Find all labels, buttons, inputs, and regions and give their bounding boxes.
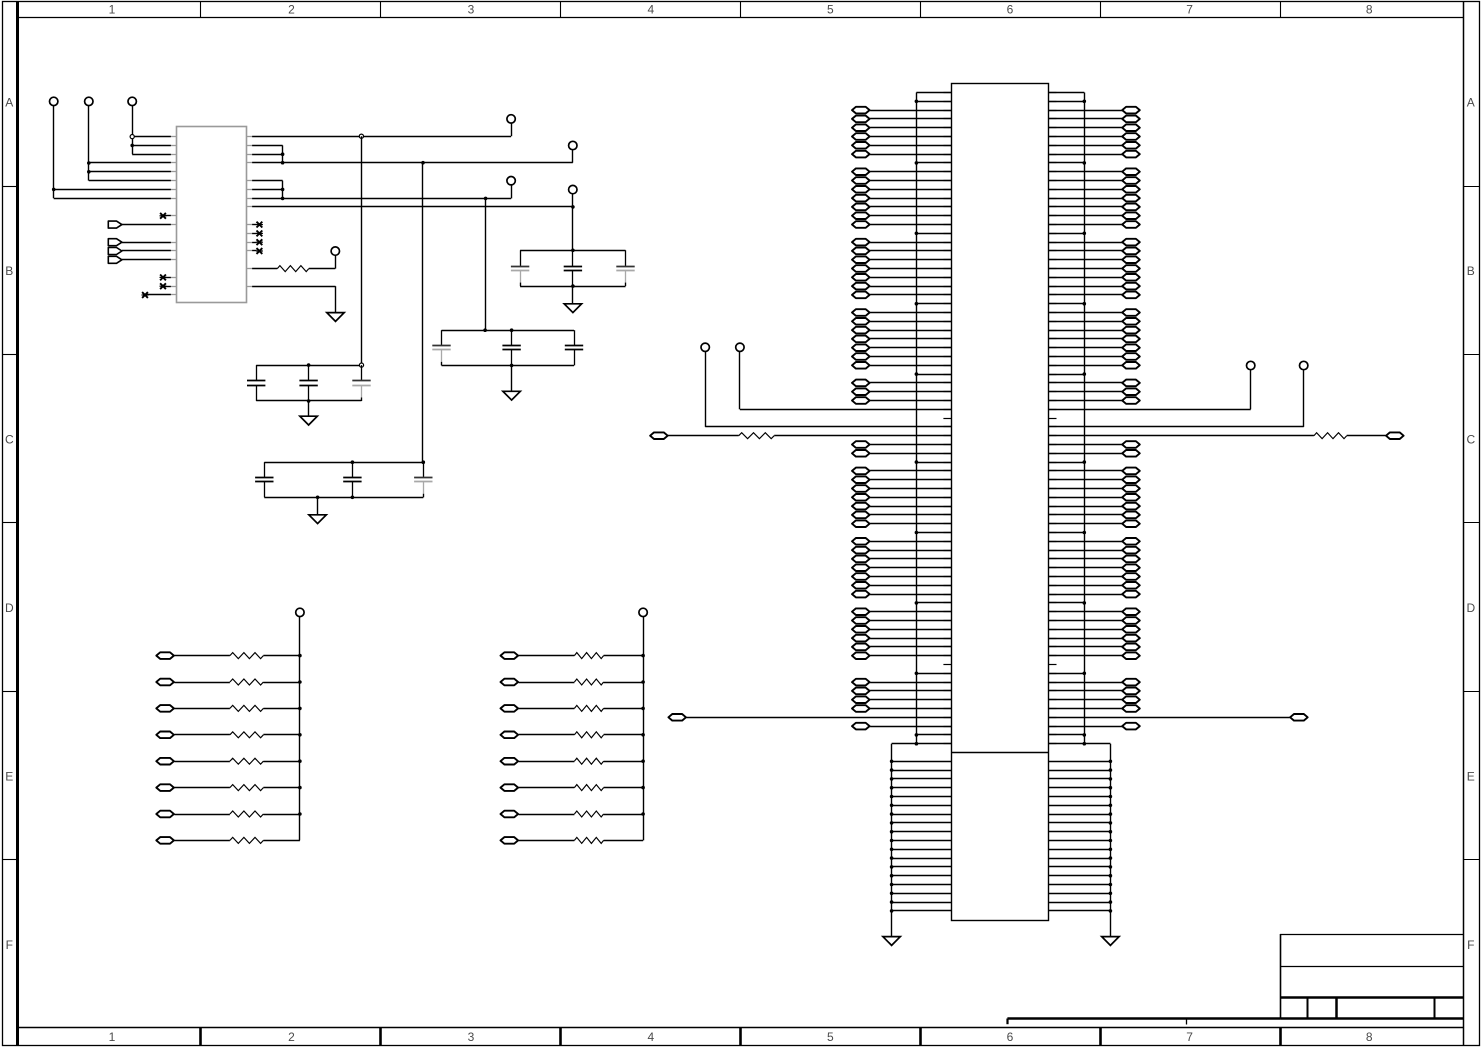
J1 GND pin row 88 left <box>890 865 952 869</box>
J1 GND pin row 76 right <box>1049 760 1113 764</box>
svg-text:4: 4 <box>647 1030 654 1044</box>
J1 GND pin row 87 right <box>1049 856 1113 860</box>
wire U1 pin k8 to TPD (node n4) <box>252 194 575 209</box>
svg-text:1: 1 <box>109 3 116 17</box>
wire U1 pin k0 to TPA (node n1) <box>252 123 511 138</box>
J1 GND pin row 77 right <box>1049 768 1113 772</box>
test point TPE <box>331 247 339 255</box>
J1 signal pin row 64 left: wire and net oval <box>852 652 951 659</box>
J1 signal pin row 70 left: wire and net oval <box>852 705 951 712</box>
resistor R6 with net oval <box>156 705 301 712</box>
wire TPF to J1 left row 36 <box>740 352 952 410</box>
J1 signal pin row 18 left: wire and net oval <box>852 248 951 255</box>
resistor R17 with net oval <box>501 784 645 791</box>
J1 signal pin row 25 left: wire and net oval <box>852 309 951 316</box>
J1 signal pin row 61 right: wire and net oval <box>1049 626 1140 633</box>
J1 signal pin row 45 left: wire and net oval <box>852 485 951 492</box>
J1 signal pin row 31 right: wire and net oval <box>1049 362 1140 369</box>
J1 GND pin row 89 right <box>1049 874 1113 878</box>
J1 GND bus pin row 1 <box>915 100 1086 104</box>
J1 signal pin row 40 left: wire and net oval <box>852 441 951 448</box>
IC U1 pin stubs <box>171 137 252 295</box>
J1 signal pin row 53 left: wire and net oval <box>852 556 951 563</box>
svg-text:D: D <box>1466 601 1475 615</box>
ground under cap bank C <box>300 416 317 425</box>
J1 signal pin row 5 left: wire and net oval <box>852 133 951 140</box>
wire J1 row 74 to lower left bus <box>892 742 952 746</box>
resistor R5 with net oval <box>156 679 301 686</box>
J1 signal pin row 35 left: wire and net oval <box>852 397 951 404</box>
J1 GND pin row 87 left <box>890 856 952 860</box>
capacitor C2 <box>564 250 582 286</box>
IC U1 <box>177 127 247 303</box>
J1 signal pin row 17 right: wire and net oval <box>1049 239 1140 246</box>
svg-text:1: 1 <box>109 1030 116 1044</box>
J1 GND bus pin row 66 <box>915 672 1086 676</box>
J1 signal pin row 52 left: wire and net oval <box>852 547 951 554</box>
J1 GND bus pin row 42 <box>915 460 1086 464</box>
test point TPK pull rail <box>639 608 647 616</box>
J1 signal pin row 31 left: wire and net oval <box>852 362 951 369</box>
J1 GND pin row 81 right <box>1049 804 1113 808</box>
no-connect U1 right pin 13 <box>252 248 263 254</box>
J1 GND pin row 77 left <box>890 768 952 772</box>
test point TPF <box>736 343 744 351</box>
test point TPG <box>701 343 709 351</box>
svg-text:3: 3 <box>468 3 475 17</box>
J1 signal pin row 57 left: wire and net oval <box>852 591 951 598</box>
wire cap bank C bottom rail <box>256 399 361 416</box>
J1 signal pin row 54 left: wire and net oval <box>852 564 951 571</box>
J1 signal pin row 49 left: wire and net oval <box>852 520 951 527</box>
svg-text:B: B <box>5 264 13 278</box>
J1 signal pin row 33 left: wire and net oval <box>852 380 951 387</box>
J1 signal pin row 46 left: wire and net oval <box>852 494 951 501</box>
no-connect U1 right pin 12 <box>252 239 263 245</box>
J1 signal pin row 68 right: wire and net oval <box>1049 688 1140 695</box>
no-connect U1 left pin 16 <box>160 275 171 281</box>
J1 signal pin row 61 left: wire and net oval <box>852 626 951 633</box>
J1 signal pin row 4 left: wire and net oval <box>852 124 951 131</box>
J1 signal pin row 34 left: wire and net oval <box>852 388 951 395</box>
J1 GND pin row 78 right <box>1049 777 1113 781</box>
svg-text:2: 2 <box>288 1030 295 1044</box>
title block <box>1007 934 1463 1025</box>
J1 signal pin row 55 left: wire and net oval <box>852 573 951 580</box>
TPK rail wire <box>643 617 645 841</box>
J1 signal pin row 27 right: wire and net oval <box>1049 327 1140 334</box>
wire TPI to J1 right row 38 <box>1049 370 1304 427</box>
J1 GND pin row 83 right <box>1049 821 1113 825</box>
J1 signal pin row 7 right: wire and net oval <box>1049 151 1140 158</box>
resistor R11 with net oval <box>156 837 300 844</box>
wire TPH to J1 right row 36 <box>1049 370 1251 410</box>
svg-text:F: F <box>6 938 13 952</box>
TPJ rail wire <box>299 617 301 841</box>
svg-text:A: A <box>5 96 13 110</box>
J1 GND bus pin row 50 <box>915 531 1086 535</box>
J1 GND pin row 91 right <box>1049 892 1113 896</box>
wire cap bank C top rail <box>256 363 363 367</box>
J1 GND pin row 79 right <box>1049 786 1113 790</box>
no-connect U1 left pin 17 <box>160 283 171 289</box>
J1 signal pin row 3 left: wire and net oval <box>852 116 951 123</box>
resistor R18 with net oval <box>501 811 645 818</box>
J1 signal pin row 13 left: wire and net oval <box>852 204 951 211</box>
J1 signal pin row 44 right: wire and net oval <box>1049 476 1140 483</box>
J1 signal pin row 12 right: wire and net oval <box>1049 195 1140 202</box>
resistor R19 with net oval <box>501 837 644 844</box>
svg-text:E: E <box>5 769 13 783</box>
J1 GND pin row 93 left <box>890 909 952 913</box>
J1 signal pin row 19 right: wire and net oval <box>1049 256 1140 263</box>
wire cap bank A top rail <box>520 249 625 253</box>
wire vertical node n1 to cap bank C <box>361 136 363 365</box>
capacitor C6 <box>565 330 583 365</box>
wire J1 left row 71 with net oval <box>668 714 951 721</box>
wire U1 pin k3 to TPB (node n2) <box>252 150 573 165</box>
J1 right GND bus <box>1049 93 1085 744</box>
J1 signal pin row 21 right: wire and net oval <box>1049 274 1140 281</box>
capacitor C12 <box>414 462 432 497</box>
J1 signal pin row 23 left: wire and net oval <box>852 292 951 299</box>
wire U1 pins k1-k3 tie <box>252 145 284 164</box>
J1 signal pin row 46 right: wire and net oval <box>1049 494 1140 501</box>
test point TPJ pull rail <box>296 608 304 616</box>
test point TPI <box>1300 361 1308 369</box>
J1 signal pin row 14 right: wire and net oval <box>1049 212 1140 219</box>
test point TPA <box>507 115 515 123</box>
J1 signal pin row 10 right: wire and net oval <box>1049 177 1140 184</box>
J1 signal pin row 23 right: wire and net oval <box>1049 292 1140 299</box>
J1 signal pin row 43 left: wire and net oval <box>852 468 951 475</box>
capacitor C3 <box>616 250 634 286</box>
wire U1 pin k17 to ground <box>252 286 335 312</box>
J1 lower left GND bus <box>891 744 893 937</box>
wire TPG to J1 left row 38 <box>705 352 951 427</box>
J1 signal pin row 54 right: wire and net oval <box>1049 564 1140 571</box>
wire cap bank A bottom rail <box>520 284 625 303</box>
J1 GND bus pin row 73 <box>915 733 1086 737</box>
J1 signal pin row 6 right: wire and net oval <box>1049 142 1140 149</box>
wire cap bank B top rail <box>442 328 575 332</box>
J1 signal pin row 26 right: wire and net oval <box>1049 318 1140 325</box>
J1 signal pin row 14 left: wire and net oval <box>852 212 951 219</box>
J1 signal pin row 43 right: wire and net oval <box>1049 468 1140 475</box>
resistor R3 with net oval, J1 right row 39 <box>1049 432 1404 439</box>
svg-text:7: 7 <box>1186 1030 1193 1044</box>
J1 GND pin row 90 left <box>890 883 952 887</box>
J1 signal pin row 53 right: wire and net oval <box>1049 556 1140 563</box>
ground under cap bank A <box>564 304 581 313</box>
J1 signal pin row 34 right: wire and net oval <box>1049 388 1140 395</box>
test point TPH <box>1247 361 1255 369</box>
J1 signal pin row 69 left: wire and net oval <box>852 696 951 703</box>
resistor R1 <box>252 266 335 272</box>
J1 signal pin row 17 left: wire and net oval <box>852 239 951 246</box>
J1 signal pin row 55 right: wire and net oval <box>1049 573 1140 580</box>
J1 GND bus pin row 8 <box>915 161 1086 165</box>
resistor R16 with net oval <box>501 758 645 765</box>
wire U1 pin k7 to TPC (node n3) <box>252 185 511 200</box>
J1 GND pin row 93 right <box>1049 909 1113 913</box>
input port flag U1 pin 13 <box>108 248 171 255</box>
J1 GND pin row 86 right <box>1049 848 1113 852</box>
svg-text:6: 6 <box>1007 1030 1014 1044</box>
J1 signal pin row 67 right: wire and net oval <box>1049 679 1140 686</box>
J1 signal pin row 48 left: wire and net oval <box>852 512 951 519</box>
J1 signal pin row 22 left: wire and net oval <box>852 283 951 290</box>
J1 signal pin row 72 left: wire and net oval <box>852 723 951 730</box>
J1 signal pin row 62 left: wire and net oval <box>852 635 951 642</box>
capacitor C8 <box>299 365 317 401</box>
test point TP1 <box>50 97 58 105</box>
J1 signal pin row 33 right: wire and net oval <box>1049 380 1140 387</box>
J1 signal pin row 11 right: wire and net oval <box>1049 186 1140 193</box>
test point TPC <box>507 177 515 185</box>
J1 GND pin row 81 left <box>890 804 952 808</box>
J1 signal pin row 60 left: wire and net oval <box>852 617 951 624</box>
J1 signal pin row 2 left: wire and net oval <box>852 107 951 114</box>
J1 GND pin row 91 left <box>890 892 952 896</box>
J1 signal pin row 19 left: wire and net oval <box>852 256 951 263</box>
J1 signal pin row 49 right: wire and net oval <box>1049 520 1140 527</box>
resistor R2 with net oval, J1 left row 39 <box>650 432 951 439</box>
J1 signal pin row 30 right: wire and net oval <box>1049 353 1140 360</box>
J1 signal pin row 47 right: wire and net oval <box>1049 503 1140 510</box>
J1 signal pin row 68 left: wire and net oval <box>852 688 951 695</box>
ground under cap bank B <box>503 391 520 400</box>
ground under cap bank D <box>309 515 326 524</box>
J1 signal pin row 22 right: wire and net oval <box>1049 283 1140 290</box>
J1 signal pin row 70 right: wire and net oval <box>1049 705 1140 712</box>
J1 signal pin row 56 right: wire and net oval <box>1049 582 1140 589</box>
J1 signal pin row 6 left: wire and net oval <box>852 142 951 149</box>
J1 signal pin row 21 left: wire and net oval <box>852 274 951 281</box>
J1 GND pin row 92 left <box>890 900 952 904</box>
J1 GND pin row 85 left <box>890 839 952 843</box>
J1 signal pin row 62 right: wire and net oval <box>1049 635 1140 642</box>
svg-text:C: C <box>5 433 14 447</box>
J1 GND pin row 82 left <box>890 812 952 816</box>
J1 GND pin row 90 right <box>1049 883 1113 887</box>
svg-text:8: 8 <box>1366 1030 1373 1044</box>
wire cap bank D top rail <box>264 460 425 464</box>
J1 GND pin row 82 right <box>1049 812 1113 816</box>
J1 signal pin row 69 right: wire and net oval <box>1049 696 1140 703</box>
J1 signal pin row 64 right: wire and net oval <box>1049 652 1140 659</box>
J1 signal pin row 35 right: wire and net oval <box>1049 397 1140 404</box>
J1 signal pin row 9 right: wire and net oval <box>1049 168 1140 175</box>
J1 GND pin row 83 left <box>890 821 952 825</box>
svg-text:A: A <box>1467 96 1475 110</box>
J1 GND pin row 92 right <box>1049 900 1113 904</box>
J1 GND pin row 85 right <box>1049 839 1113 843</box>
J1 signal pin row 63 right: wire and net oval <box>1049 644 1140 651</box>
resistor R10 with net oval <box>156 811 301 818</box>
J1 GND bus pin row 24 <box>915 302 1086 306</box>
J1 signal pin row 20 left: wire and net oval <box>852 265 951 272</box>
J1 GND bus pin row 32 <box>915 372 1086 376</box>
svg-text:4: 4 <box>647 3 654 17</box>
J1 signal pin row 15 left: wire and net oval <box>852 221 951 228</box>
test point TP2 <box>85 97 93 105</box>
J1 signal pin row 3 right: wire and net oval <box>1049 116 1140 123</box>
svg-text:C: C <box>1466 433 1475 447</box>
J1 GND pin row 89 left <box>890 874 952 878</box>
J1 signal pin row 2 right: wire and net oval <box>1049 107 1140 114</box>
svg-text:D: D <box>5 601 14 615</box>
wire TP2 net to U1 pins 4-6 <box>87 106 171 181</box>
wire TP1 net to U1 pins 7-8 <box>52 106 171 199</box>
wire U1 pins k5-k7 tie <box>252 181 284 201</box>
svg-text:5: 5 <box>827 1030 834 1044</box>
J1 signal pin row 12 left: wire and net oval <box>852 195 951 202</box>
svg-text:B: B <box>1467 264 1475 278</box>
J1 signal pin row 28 right: wire and net oval <box>1049 336 1140 343</box>
wire vertical node n3 to cap bank B <box>485 198 487 330</box>
J1 signal pin row 5 right: wire and net oval <box>1049 133 1140 140</box>
J1 signal pin row 4 right: wire and net oval <box>1049 124 1140 131</box>
J1 GND bus pin row 58 <box>915 601 1086 605</box>
J1 signal pin row 11 left: wire and net oval <box>852 186 951 193</box>
no-connect U1 right pin 11 <box>252 231 263 237</box>
J1 signal pin row 57 right: wire and net oval <box>1049 591 1140 598</box>
J1 signal pin row 40 right: wire and net oval <box>1049 441 1140 448</box>
wire J1 right row 71 with net oval <box>1049 714 1308 721</box>
wire R1 to TPE <box>335 255 337 268</box>
J1 signal pin row 15 right: wire and net oval <box>1049 221 1140 228</box>
no-connect U1 left pin 9 <box>160 213 171 219</box>
svg-text:F: F <box>1467 938 1474 952</box>
J1 signal pin row 10 left: wire and net oval <box>852 177 951 184</box>
resistor R7 with net oval <box>156 732 301 739</box>
resistor R9 with net oval <box>156 784 301 791</box>
capacitor C11 <box>343 462 361 497</box>
test point TPD <box>569 185 577 193</box>
resistor R13 with net oval <box>501 679 645 686</box>
svg-text:8: 8 <box>1366 3 1373 17</box>
J1 GND bus pin row 16 <box>915 232 1086 236</box>
svg-text:5: 5 <box>827 3 834 17</box>
ground under J1 left bus <box>883 937 900 946</box>
J1 signal pin row 9 left: wire and net oval <box>852 168 951 175</box>
ground under U1 <box>327 313 344 322</box>
J1 left GND bus <box>916 93 951 744</box>
no-connect U1 right pin 10 <box>252 222 263 228</box>
resistor R15 with net oval <box>501 732 645 739</box>
test point TPB <box>569 141 577 149</box>
J1 lower right GND bus <box>1110 744 1112 937</box>
J1 signal pin row 51 right: wire and net oval <box>1049 538 1140 545</box>
J1 GND pin row 80 left <box>890 795 952 799</box>
wire vertical node n2 to cap bank D <box>422 163 424 463</box>
J1 signal pin row 59 right: wire and net oval <box>1049 608 1140 615</box>
J1 signal pin row 26 left: wire and net oval <box>852 318 951 325</box>
resistor R14 with net oval <box>501 705 645 712</box>
capacitor C4 <box>432 330 450 365</box>
J1 signal pin row 48 right: wire and net oval <box>1049 512 1140 519</box>
input port flag U1 pin 10 <box>108 221 171 228</box>
connector J1 <box>951 84 1048 921</box>
J1 signal pin row 28 left: wire and net oval <box>852 336 951 343</box>
J1 signal pin row 67 left: wire and net oval <box>852 679 951 686</box>
svg-text:E: E <box>1467 769 1475 783</box>
wire cap bank B bottom rail <box>442 364 575 392</box>
J1 GND pin row 76 left <box>890 760 952 764</box>
J1 GND pin row 88 right <box>1049 865 1113 869</box>
J1 signal pin row 41 right: wire and net oval <box>1049 450 1140 457</box>
J1 signal pin row 30 left: wire and net oval <box>852 353 951 360</box>
J1 signal pin row 59 left: wire and net oval <box>852 608 951 615</box>
J1 signal pin row 47 left: wire and net oval <box>852 503 951 510</box>
J1 signal pin row 60 right: wire and net oval <box>1049 617 1140 624</box>
J1 GND pin row 79 left <box>890 786 952 790</box>
J1 signal pin row 56 left: wire and net oval <box>852 582 951 589</box>
wire cap bank D bottom rail <box>264 496 423 515</box>
J1 signal pin row 52 right: wire and net oval <box>1049 547 1140 554</box>
wire vertical node n4 to cap bank A <box>572 207 574 250</box>
svg-text:3: 3 <box>468 1030 475 1044</box>
J1 GND pin row 84 left <box>890 830 952 834</box>
J1 signal pin row 27 left: wire and net oval <box>852 327 951 334</box>
input port flag U1 pin 12 <box>108 239 171 246</box>
no-connect U1 left pin 18 <box>142 292 171 298</box>
J1 signal pin row 29 right: wire and net oval <box>1049 344 1140 351</box>
resistor R12 with net oval <box>501 652 645 659</box>
J1 signal pin row 25 right: wire and net oval <box>1049 309 1140 316</box>
test point TP3 <box>128 97 136 105</box>
J1 GND pin row 78 left <box>890 777 952 781</box>
J1 signal pin row 18 right: wire and net oval <box>1049 248 1140 255</box>
resistor R8 with net oval <box>156 758 301 765</box>
capacitor C1 <box>511 250 529 286</box>
ground under J1 right bus <box>1102 937 1119 946</box>
J1 GND pin row 80 right <box>1049 795 1113 799</box>
svg-text:2: 2 <box>288 3 295 17</box>
J1 GND pin row 84 right <box>1049 830 1113 834</box>
wire TP3 net to U1 pins 1-3 <box>130 106 171 155</box>
J1 signal pin row 45 right: wire and net oval <box>1049 485 1140 492</box>
J1 signal pin row 41 left: wire and net oval <box>852 450 951 457</box>
wire J1 row 74 to lower right bus <box>1049 742 1111 746</box>
capacitor C5 <box>502 330 520 365</box>
connector J1 pin stubs <box>943 93 1056 744</box>
J1 signal pin row 13 right: wire and net oval <box>1049 204 1140 211</box>
svg-text:7: 7 <box>1186 3 1193 17</box>
resistor R4 with net oval <box>156 652 301 659</box>
capacitor C9 <box>352 365 370 401</box>
svg-text:6: 6 <box>1007 3 1014 17</box>
J1 signal pin row 7 left: wire and net oval <box>852 151 951 158</box>
J1 GND pin row 86 left <box>890 848 952 852</box>
capacitor C10 <box>255 462 273 497</box>
J1 signal pin row 20 right: wire and net oval <box>1049 265 1140 272</box>
J1 signal pin row 29 left: wire and net oval <box>852 344 951 351</box>
capacitor C7 <box>247 365 265 401</box>
J1 signal pin row 72 right: wire and net oval <box>1049 723 1140 730</box>
J1 signal pin row 51 left: wire and net oval <box>852 538 951 545</box>
input port flag U1 pin 14 <box>108 256 171 263</box>
J1 signal pin row 44 left: wire and net oval <box>852 476 951 483</box>
J1 signal pin row 63 left: wire and net oval <box>852 644 951 651</box>
